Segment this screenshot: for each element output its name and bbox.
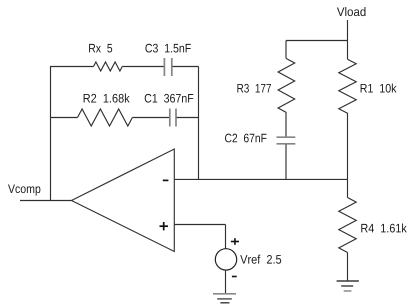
label R1 10k: [361, 84, 397, 93]
wire Rx to C3: [122, 66, 164, 68]
voltage source Vref: [215, 249, 236, 270]
wire R2 branch left: [50, 117, 78, 119]
wire plus input horizontal: [174, 224, 225, 226]
resistor Rx: [94, 62, 123, 71]
wire right feedback vertical: [198, 67, 200, 180]
op-amp minus pin label: [163, 179, 169, 181]
Vref minus sign: [232, 276, 237, 278]
label Vload: [337, 7, 366, 16]
label R2 1.68k: [84, 94, 130, 103]
wire top node horizontal: [286, 40, 348, 42]
wire R2 to C1: [132, 117, 169, 119]
wire plus input vertical to Vref: [225, 225, 227, 249]
resistor R1: [339, 59, 356, 113]
capacitor C3: [164, 58, 171, 76]
label R3 177: [237, 84, 271, 93]
label C2 67nF: [225, 134, 267, 143]
wire R3 top stub: [285, 41, 287, 59]
wire Vref to ground: [225, 270, 227, 294]
label R4 1.61k: [361, 223, 406, 232]
label C3 1.5nF: [145, 44, 190, 53]
label Vcomp: [8, 185, 40, 196]
resistor R4: [339, 198, 356, 253]
resistor R2: [78, 109, 133, 126]
wire C2 to node: [285, 144, 287, 179]
wire inverting input node: [174, 178, 347, 180]
wire top loop left: [50, 66, 94, 68]
ground below R4: [337, 281, 359, 291]
op-amp plus pin label: [160, 222, 169, 230]
capacitor C2: [277, 137, 296, 144]
label Rx 5: [89, 44, 112, 53]
op-amp U1: [72, 149, 175, 252]
wire node to R4: [347, 179, 349, 197]
Vref plus sign: [231, 238, 239, 245]
wire Vload vertical: [347, 20, 349, 59]
wire Vcomp output: [20, 200, 72, 202]
wire R3 to C2: [285, 113, 287, 138]
ground below Vref: [213, 294, 236, 303]
wire C1 to corner: [177, 117, 199, 119]
wire R4 to ground: [347, 253, 349, 282]
resistor R3: [278, 59, 295, 113]
label Vref 2.5: [240, 255, 281, 264]
capacitor C1: [170, 109, 176, 127]
wire R1 bottom: [347, 113, 349, 180]
wire left feedback vertical: [50, 67, 52, 201]
label C1 367nF: [145, 94, 194, 103]
wire C3 to corner: [173, 66, 199, 68]
